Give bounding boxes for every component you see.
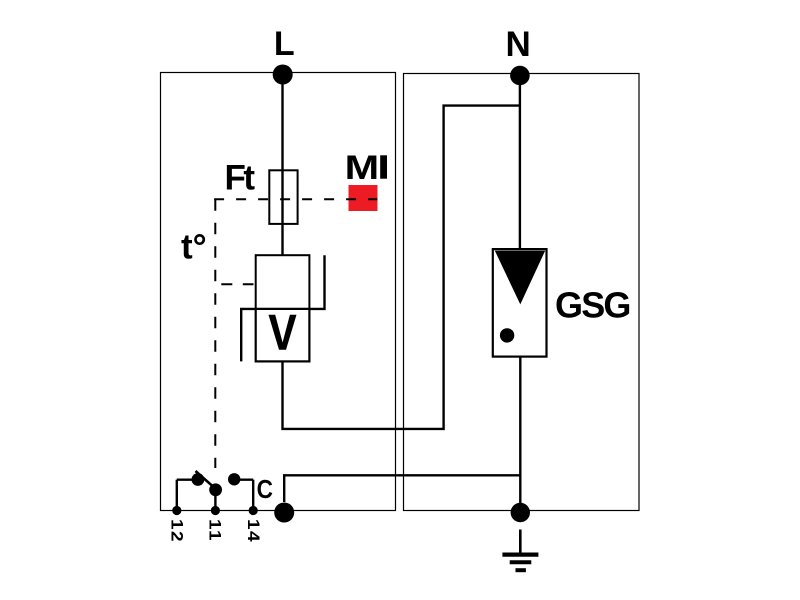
svg-text:14: 14 [245,519,263,543]
svg-text:L: L [274,25,295,63]
svg-text:12: 12 [168,519,186,543]
svg-text:M: M [345,149,380,187]
svg-text:Ft: Ft [225,159,256,198]
svg-text:11: 11 [206,519,224,542]
svg-text:N: N [506,25,531,64]
svg-text:t°: t° [181,228,207,267]
svg-text:GSG: GSG [555,285,630,326]
svg-text:C: C [257,476,273,505]
